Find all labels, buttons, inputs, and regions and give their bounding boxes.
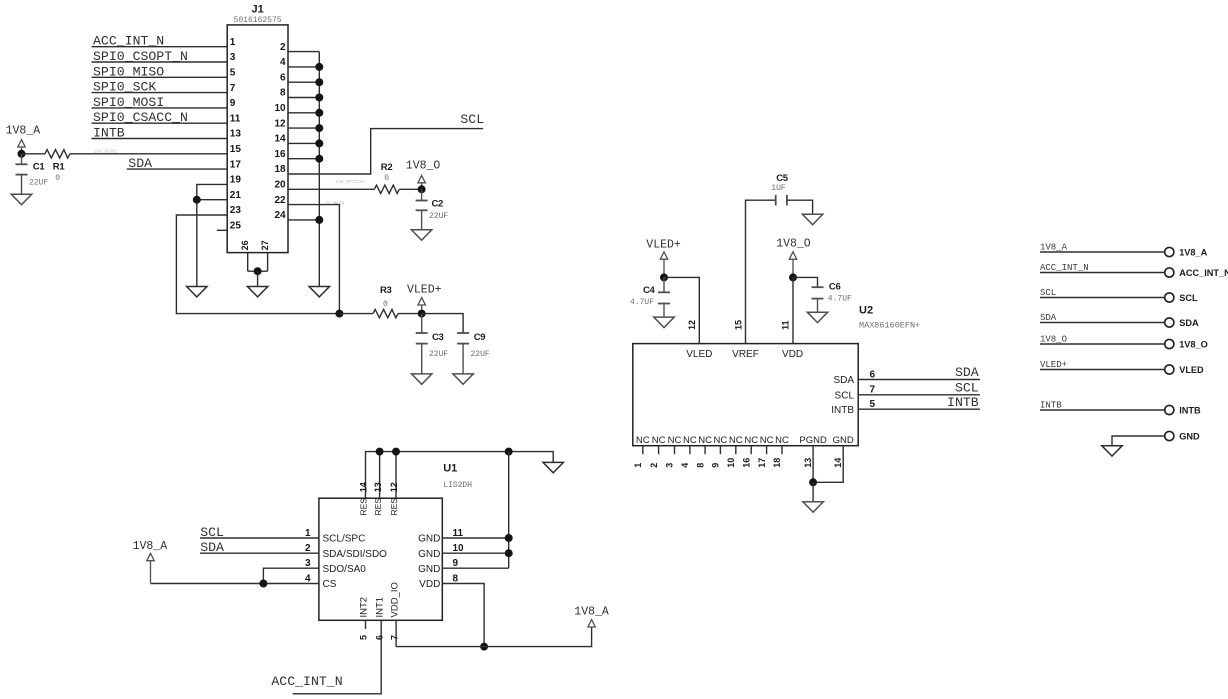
ground at C2 xyxy=(411,230,431,240)
wire U2 pin 13 PGND to ground xyxy=(812,446,814,483)
svg-text:5: 5 xyxy=(230,68,236,79)
capacitor C4 xyxy=(663,277,665,292)
op-amp U1 body xyxy=(319,498,442,620)
svg-text:NC: NC xyxy=(698,435,712,446)
svg-text:NC: NC xyxy=(683,435,697,446)
wire J1 pin 20 to R2 xyxy=(288,188,374,190)
terminal circle 1V8_A xyxy=(1165,247,1174,256)
svg-text:INTB: INTB xyxy=(831,405,854,416)
svg-text:INT2: INT2 xyxy=(359,597,370,618)
svg-text:GND: GND xyxy=(1179,431,1200,441)
svg-text:10: 10 xyxy=(274,103,286,114)
wire net VLED+ to terminal VLED xyxy=(1040,369,1165,371)
svg-text:1: 1 xyxy=(305,528,311,539)
ground at U2 xyxy=(803,502,823,512)
svg-text:RES: RES xyxy=(359,498,369,516)
junction VLED+ U2 xyxy=(660,273,668,281)
svg-text:10: 10 xyxy=(726,458,736,468)
svg-text:18: 18 xyxy=(274,164,286,175)
ground at C6 xyxy=(807,312,827,322)
svg-text:0: 0 xyxy=(55,174,60,183)
junction pin 16 trunk xyxy=(315,155,323,163)
no-connect stub U2 pin 8 xyxy=(704,446,706,455)
wire J1 pin 26 stub xyxy=(247,253,249,272)
svg-text:GND: GND xyxy=(418,549,440,560)
svg-text:C5: C5 xyxy=(776,173,789,184)
svg-text:NC: NC xyxy=(668,435,682,446)
wire ground trunk vertical xyxy=(318,52,320,287)
wire J1 pin 10 to trunk xyxy=(288,112,319,114)
junction VDD on 1V8_A rail xyxy=(480,643,488,651)
terminal circle VLED xyxy=(1165,365,1174,374)
ground at terminal GND xyxy=(1102,446,1122,456)
ground at J1 pins 26/27 xyxy=(247,287,267,297)
wire J1 pin 16 to trunk xyxy=(288,158,319,160)
wire J1 pin 6 to trunk xyxy=(288,81,319,83)
svg-text:SDA: SDA xyxy=(955,365,979,380)
svg-text:2: 2 xyxy=(305,543,311,554)
svg-text:17: 17 xyxy=(757,458,767,468)
power symbol VLED+ xyxy=(418,298,425,305)
terminal circle 1V8_O xyxy=(1165,339,1174,348)
wire R3 to VLED+ node xyxy=(398,313,422,315)
svg-text:RES: RES xyxy=(389,498,399,516)
junction PGND/GND xyxy=(809,478,817,486)
capacitor C2 xyxy=(421,189,423,200)
svg-text:17: 17 xyxy=(230,159,242,170)
wire net ACC_INT_N to terminal ACC_INT_N xyxy=(1040,272,1165,274)
svg-text:SCL: SCL xyxy=(1179,293,1198,303)
svg-text:SDA: SDA xyxy=(128,156,152,171)
svg-text:JC_MAIN: JC_MAIN xyxy=(325,200,344,206)
no-connect stub U2 pin 17 xyxy=(766,446,768,455)
svg-text:2: 2 xyxy=(280,42,286,53)
svg-text:10: 10 xyxy=(453,543,465,554)
junction pin 12 trunk xyxy=(315,124,323,132)
junction VLED+ node xyxy=(418,310,426,318)
svg-text:25: 25 xyxy=(230,221,242,232)
svg-text:NC: NC xyxy=(744,435,758,446)
wire 1V8_A rail bottom xyxy=(396,627,591,647)
wire U1 pin 9 to GND branch xyxy=(442,567,508,569)
resistor R1 xyxy=(45,150,70,158)
junction pin 10 xyxy=(505,549,513,557)
svg-text:SDO/SA0: SDO/SA0 xyxy=(323,564,367,575)
svg-text:7: 7 xyxy=(870,385,876,396)
no-connect stub U2 pin 16 xyxy=(750,446,752,455)
no-connect stub U2 pin 3 xyxy=(674,446,676,455)
svg-text:1: 1 xyxy=(230,37,236,48)
ground at J1 trunk xyxy=(309,287,329,297)
wire U1 pin 8 VDD to 1V8_A rail xyxy=(442,584,484,647)
wire 1V8_A to U1 pin 4 CS xyxy=(151,583,319,585)
wire net 1V8_O to terminal 1V8_O xyxy=(1040,343,1165,345)
svg-text:13: 13 xyxy=(373,482,383,492)
wire net 1V8_A to terminal 1V8_A xyxy=(1040,251,1165,253)
svg-text:VLED+: VLED+ xyxy=(646,239,681,252)
wire ground to terminal GND xyxy=(1112,436,1165,446)
wire U2 pin 5 net INTB xyxy=(858,408,980,410)
svg-text:4.7UF: 4.7UF xyxy=(630,298,654,307)
svg-text:SPI0_MISO: SPI0_MISO xyxy=(93,64,164,79)
junction pins 26-27 xyxy=(254,267,262,275)
svg-text:NC: NC xyxy=(760,435,774,446)
no-connect stub J1 pin 25 xyxy=(217,229,227,231)
svg-text:SCL: SCL xyxy=(1040,288,1056,298)
power symbol 1V8_A xyxy=(18,140,25,147)
svg-text:NC: NC xyxy=(652,435,666,446)
wire R2 to 1V8_O node xyxy=(399,188,421,190)
wire joining pins 26-27 xyxy=(248,270,268,272)
connector J1 body xyxy=(227,25,288,253)
wire 1V8_O to C6 xyxy=(793,277,818,287)
junction pin 6 trunk xyxy=(315,78,323,86)
wire net ACC_INT_N to J1 pin 1 xyxy=(92,46,228,48)
svg-text:6: 6 xyxy=(374,635,384,640)
svg-text:12: 12 xyxy=(389,482,399,492)
junction pin 4 trunk xyxy=(315,63,323,71)
svg-text:9: 9 xyxy=(711,463,721,468)
junction pin 11 xyxy=(505,534,513,542)
svg-text:C1: C1 xyxy=(33,162,46,173)
wire J1 pin 2 to ground trunk xyxy=(288,51,319,53)
wire J1 pin 23 to VLED+ rail xyxy=(176,215,339,314)
svg-text:8: 8 xyxy=(280,88,286,99)
svg-text:1V8_O: 1V8_O xyxy=(776,238,811,251)
junction 1V8_O U2 xyxy=(789,273,797,281)
svg-text:4: 4 xyxy=(280,57,286,68)
svg-text:11: 11 xyxy=(230,113,241,124)
svg-text:NC: NC xyxy=(714,435,728,446)
svg-text:22UF: 22UF xyxy=(429,212,448,221)
no-connect stub U2 pin 9 xyxy=(719,446,721,455)
wire J1 pin 22 down to VLED+ rail xyxy=(288,205,339,314)
svg-text:U1: U1 xyxy=(443,462,457,474)
svg-text:SCL/SPC: SCL/SPC xyxy=(323,534,366,545)
svg-text:1V8_A: 1V8_A xyxy=(133,540,168,553)
wire U1 pin 14 to ground rail xyxy=(366,452,554,499)
terminal circle SDA xyxy=(1165,318,1174,327)
svg-text:R3: R3 xyxy=(380,285,392,296)
power symbol 1V8_O at U2 xyxy=(789,252,796,259)
svg-text:INTB: INTB xyxy=(1040,401,1062,411)
terminal circle SCL xyxy=(1165,293,1174,302)
wire U1 pin 10 to GND branch xyxy=(442,552,508,554)
svg-text:R2: R2 xyxy=(381,162,393,173)
svg-text:4: 4 xyxy=(305,573,311,584)
svg-text:15: 15 xyxy=(230,144,242,155)
svg-text:18: 18 xyxy=(772,458,782,468)
svg-text:INTB: INTB xyxy=(1179,405,1201,415)
junction pin 24 trunk xyxy=(315,216,323,224)
svg-text:MAX86160EFN+: MAX86160EFN+ xyxy=(859,321,920,331)
svg-text:INT1: INT1 xyxy=(374,597,385,618)
op-amp U2 body xyxy=(633,344,858,446)
wire J1 pin 4 to trunk xyxy=(288,66,319,68)
svg-text:INTB: INTB xyxy=(947,395,979,410)
no-connect stub U1 pin 5 INT2 xyxy=(365,620,367,629)
svg-text:ACC_INT_N: ACC_INT_N xyxy=(1179,268,1228,278)
wire net INTB to J1 pin 13 xyxy=(92,138,228,140)
svg-text:5: 5 xyxy=(870,399,876,410)
svg-text:12: 12 xyxy=(274,118,286,129)
svg-text:VREF: VREF xyxy=(732,349,759,360)
svg-text:7: 7 xyxy=(389,635,399,640)
svg-text:1V8_A: 1V8_A xyxy=(1179,247,1207,257)
svg-text:ACC_INT_N: ACC_INT_N xyxy=(271,674,342,689)
svg-text:1V8_OPTICAL: 1V8_OPTICAL xyxy=(335,179,365,185)
svg-text:J1: J1 xyxy=(251,4,263,16)
junction pin22 on VLED+ rail xyxy=(335,310,343,318)
svg-text:C4: C4 xyxy=(643,285,656,296)
svg-text:26: 26 xyxy=(240,240,250,250)
junction pin 14 trunk xyxy=(315,139,323,147)
capacitor C6 xyxy=(812,287,824,298)
svg-text:VLED+: VLED+ xyxy=(1040,360,1067,370)
wire junction to ground U2 xyxy=(812,482,814,502)
svg-text:SDA: SDA xyxy=(200,540,224,555)
svg-text:C6: C6 xyxy=(829,282,841,293)
svg-text:6: 6 xyxy=(870,369,876,380)
svg-text:1V8_A: 1V8_A xyxy=(6,125,41,138)
wire J1 pin 21 to ground tap xyxy=(197,199,227,201)
wire U1 pin 12 to rail xyxy=(395,452,397,499)
svg-text:11: 11 xyxy=(453,528,464,539)
svg-text:16: 16 xyxy=(274,149,286,160)
svg-text:C2: C2 xyxy=(432,198,444,209)
svg-text:4: 4 xyxy=(680,463,690,468)
svg-text:NC: NC xyxy=(775,435,789,446)
wire U1 pin 7 VDD_IO down xyxy=(395,620,397,646)
wire U2 pin 15 VREF to C5 xyxy=(746,200,776,343)
power symbol 1V8_O xyxy=(418,175,425,182)
wire 1V8_O to U2 pin 11 xyxy=(792,277,794,343)
svg-text:13: 13 xyxy=(803,458,813,468)
power symbol VLED+ at U2 xyxy=(660,252,667,259)
svg-text:NC: NC xyxy=(729,435,743,446)
svg-text:INTB: INTB xyxy=(93,126,125,141)
wire net SPI0_CSOPT_N to J1 pin 3 xyxy=(92,61,228,63)
junction pin3 on CS wire xyxy=(259,580,267,588)
power symbol 1V8_A right of U1 xyxy=(588,620,595,627)
svg-text:3: 3 xyxy=(305,558,311,569)
svg-text:U2: U2 xyxy=(859,304,873,316)
svg-text:14: 14 xyxy=(274,134,286,145)
svg-text:1V8_A: 1V8_A xyxy=(574,606,609,619)
capacitor C3 xyxy=(421,314,423,333)
svg-text:1: 1 xyxy=(633,463,643,468)
no-connect stub U2 pin 10 xyxy=(735,446,737,455)
svg-text:SDA: SDA xyxy=(833,375,854,386)
svg-text:1V8_A: 1V8_A xyxy=(1040,243,1068,253)
svg-text:8: 8 xyxy=(453,573,459,584)
svg-text:SDA: SDA xyxy=(1179,318,1199,328)
no-connect stub U2 pin 18 xyxy=(781,446,783,455)
svg-text:9: 9 xyxy=(230,98,236,109)
wire rail to R3 xyxy=(339,313,373,315)
svg-text:RES: RES xyxy=(373,498,383,516)
svg-text:GND: GND xyxy=(418,534,440,545)
ground at C3 xyxy=(412,374,432,384)
no-connect stub U2 pin 1 xyxy=(642,446,644,455)
svg-text:24: 24 xyxy=(274,210,286,221)
svg-text:14: 14 xyxy=(359,482,369,492)
svg-text:1V8_O: 1V8_O xyxy=(406,159,441,172)
svg-text:C9: C9 xyxy=(474,332,486,343)
svg-text:SCL: SCL xyxy=(460,112,484,127)
svg-text:PGND: PGND xyxy=(799,435,827,446)
svg-text:1V8_ACCEL: 1V8_ACCEL xyxy=(94,149,119,155)
svg-text:7: 7 xyxy=(230,83,236,94)
wire J1 pin 18 to net SCL xyxy=(288,129,483,174)
ground at C4 xyxy=(654,317,674,327)
wire U1 pin 3 SDO/SA0 down to CS wire xyxy=(263,568,319,583)
wire C5 to ground xyxy=(787,200,813,214)
svg-text:CS: CS xyxy=(323,579,337,590)
wire U1 pin 6 INT1 to ACC_INT_N xyxy=(293,620,382,694)
wire net SCL to U1 pin 1 xyxy=(200,537,319,539)
svg-text:SCL: SCL xyxy=(835,390,855,401)
ground at U1 rail xyxy=(543,462,563,472)
svg-text:VDD: VDD xyxy=(419,579,440,590)
wire U2 pin 14 GND to ground xyxy=(813,446,843,483)
svg-text:20: 20 xyxy=(274,180,286,191)
terminal circle INTB xyxy=(1165,405,1174,414)
svg-text:11: 11 xyxy=(781,320,791,330)
wire J1 pin 27 stub xyxy=(267,253,269,272)
svg-text:12: 12 xyxy=(687,320,697,330)
wire J1 pin 14 to trunk xyxy=(288,142,319,144)
svg-text:9: 9 xyxy=(453,558,459,569)
svg-text:VDD_IO: VDD_IO xyxy=(389,582,400,617)
wire U1 pin 13 to rail xyxy=(379,452,381,499)
svg-text:VLED: VLED xyxy=(686,349,712,360)
svg-text:23: 23 xyxy=(230,205,242,216)
svg-text:ACC_INT_N: ACC_INT_N xyxy=(1040,263,1089,273)
capacitor C5 xyxy=(776,195,787,206)
svg-text:5016162575: 5016162575 xyxy=(234,16,282,25)
wire U2 pin 6 net SDA xyxy=(858,379,980,381)
ground at C5 xyxy=(802,214,822,224)
ground at J1 pins 19/21 xyxy=(187,287,207,297)
power symbol 1V8_A at U1 xyxy=(147,553,154,560)
junction pin 8 trunk xyxy=(315,94,323,102)
svg-text:VLED+: VLED+ xyxy=(407,284,442,297)
svg-text:22UF: 22UF xyxy=(471,350,490,359)
svg-text:SPI0_CSOPT_N: SPI0_CSOPT_N xyxy=(93,49,188,64)
svg-text:0: 0 xyxy=(384,174,389,183)
svg-text:21: 21 xyxy=(230,190,242,201)
svg-text:LIS2DH: LIS2DH xyxy=(443,481,472,490)
svg-text:22UF: 22UF xyxy=(29,179,48,188)
wire net SDA to terminal SDA xyxy=(1040,322,1165,324)
svg-text:4.7UF: 4.7UF xyxy=(828,295,852,304)
no-connect stub U2 pin 2 xyxy=(658,446,660,455)
junction GND branch rail xyxy=(505,448,513,456)
svg-text:GND: GND xyxy=(833,435,854,446)
wire J1 pin 24 to trunk xyxy=(288,219,319,221)
svg-text:19: 19 xyxy=(230,175,242,186)
wire net INTB to terminal INTB xyxy=(1040,409,1165,411)
wire net SDA to U1 pin 2 xyxy=(200,552,319,554)
svg-text:SCL: SCL xyxy=(200,525,224,540)
capacitor C1 xyxy=(21,154,23,165)
svg-text:R1: R1 xyxy=(53,162,66,173)
wire R1 to J1 pin 15 xyxy=(70,153,227,155)
svg-text:22: 22 xyxy=(274,195,286,206)
resistor R3 xyxy=(373,309,398,317)
wire junction to ground xyxy=(257,271,259,286)
terminal circle ACC_INT_N xyxy=(1165,268,1174,277)
svg-text:SDA/SDI/SDO: SDA/SDI/SDO xyxy=(323,549,388,560)
svg-text:GND: GND xyxy=(418,564,440,575)
wire VLED+ to U2 pin 12 xyxy=(664,277,699,343)
terminal circle GND xyxy=(1165,431,1174,440)
junction pin 13 rail xyxy=(376,448,384,456)
svg-text:C3: C3 xyxy=(432,332,444,343)
svg-text:3: 3 xyxy=(230,52,236,63)
svg-text:15: 15 xyxy=(733,320,743,330)
svg-text:14: 14 xyxy=(833,458,843,468)
svg-text:1V8_O: 1V8_O xyxy=(1040,335,1067,345)
wire U2 pin 7 net SCL xyxy=(858,394,980,396)
no-connect stub U2 pin 4 xyxy=(689,446,691,455)
wire 1V8_A to R1 xyxy=(22,153,45,155)
svg-text:VLED: VLED xyxy=(1179,365,1204,375)
svg-text:SPI0_CSACC_N: SPI0_CSACC_N xyxy=(93,110,188,125)
ground at C1 xyxy=(11,194,31,204)
wire net SDA to J1 pin 17 xyxy=(127,168,227,170)
svg-text:27: 27 xyxy=(260,240,270,250)
svg-text:22UF: 22UF xyxy=(429,350,448,359)
svg-text:1UF: 1UF xyxy=(771,184,786,193)
wire net SCL to terminal SCL xyxy=(1040,297,1165,299)
wire net SPI0_CSACC_N to J1 pin 11 xyxy=(92,122,228,124)
junction pin 10 trunk xyxy=(315,109,323,117)
wire J1 pin 8 to trunk xyxy=(288,97,319,99)
wire net SPI0_MISO to J1 pin 5 xyxy=(92,76,228,78)
svg-text:SPI0_SCK: SPI0_SCK xyxy=(93,80,156,95)
wire VLED+ node to C9 xyxy=(422,314,463,333)
ground at C9 xyxy=(453,374,473,384)
svg-text:1V8_O: 1V8_O xyxy=(1179,339,1208,349)
svg-text:16: 16 xyxy=(741,458,751,468)
svg-text:13: 13 xyxy=(230,129,242,140)
wire net SPI0_SCK to J1 pin 7 xyxy=(92,92,228,94)
svg-text:SCL: SCL xyxy=(955,381,979,396)
svg-text:8: 8 xyxy=(695,463,705,468)
svg-text:5: 5 xyxy=(359,635,369,640)
junction 1V8_O node xyxy=(418,185,426,193)
wire J1 pin 12 to trunk xyxy=(288,127,319,129)
svg-text:SDA: SDA xyxy=(1040,313,1057,323)
svg-text:VDD: VDD xyxy=(782,349,803,360)
wire GND branch vertical xyxy=(508,452,510,569)
wire net SPI0_MOSI to J1 pin 9 xyxy=(92,107,228,109)
junction 1V8_A node xyxy=(18,150,26,158)
junction pin 12 rail xyxy=(392,448,400,456)
wire U1 pin 11 to GND branch xyxy=(442,537,508,539)
svg-text:ACC_INT_N: ACC_INT_N xyxy=(93,34,164,49)
svg-text:3: 3 xyxy=(665,463,675,468)
svg-text:2: 2 xyxy=(649,463,659,468)
svg-text:6: 6 xyxy=(280,72,286,83)
svg-text:NC: NC xyxy=(636,435,650,446)
junction pin 21 xyxy=(193,196,201,204)
wire J1 pin 19 to ground xyxy=(197,184,227,286)
resistor R2 xyxy=(374,185,399,193)
capacitor C9 xyxy=(457,333,469,344)
